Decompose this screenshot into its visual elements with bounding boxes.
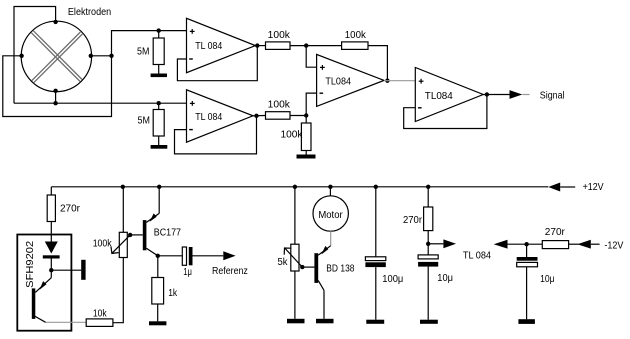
resistor R1 5M xyxy=(158,31,160,38)
svg-text:270r: 270r xyxy=(60,203,81,214)
resistor R7 270r xyxy=(50,187,52,195)
svg-text:+12V: +12V xyxy=(583,182,604,193)
wire top electrode loop to bottom bus xyxy=(14,7,56,104)
op-amp U2 TL084 xyxy=(187,90,254,142)
junction node B xyxy=(304,113,308,117)
svg-text:270r: 270r xyxy=(403,215,423,226)
svg-text:-12V: -12V xyxy=(604,240,623,251)
resistor R10 270r xyxy=(427,187,429,207)
electrode cross diagonal 2 xyxy=(32,32,83,83)
junction rail RV1 xyxy=(121,185,125,189)
svg-text:TL 084: TL 084 xyxy=(195,112,222,123)
node left electrode xyxy=(19,54,23,58)
svg-text:TL 084: TL 084 xyxy=(463,250,491,261)
svg-text:100k: 100k xyxy=(345,30,367,41)
transistor Q2 BC177 xyxy=(158,187,160,214)
+12V supply rail xyxy=(51,186,548,188)
capacitor C2 100u xyxy=(375,187,377,257)
arrow -12V xyxy=(577,240,591,249)
junction node A xyxy=(304,43,308,47)
junction rail Q2 emitter xyxy=(157,185,161,189)
potentiometer RV2 5k xyxy=(294,187,296,244)
svg-text:1μ: 1μ xyxy=(183,267,192,278)
svg-text:10μ: 10μ xyxy=(540,274,555,285)
arrow TL084 V- xyxy=(494,240,508,249)
wire R8 to potentiometer RV1 bottom xyxy=(113,258,123,323)
arrow +12V xyxy=(548,183,560,192)
svg-text:100k: 100k xyxy=(268,100,291,111)
wire left electrode loop to op-amp U1 input xyxy=(3,31,187,117)
op-amp U1 TL084 xyxy=(187,18,256,72)
op-amp U3 TL084 xyxy=(317,54,384,106)
wire right electrode to vertical xyxy=(91,55,112,57)
svg-text:100k: 100k xyxy=(268,30,291,41)
arrow Referenz output xyxy=(223,251,235,260)
node right electrode xyxy=(89,54,93,58)
junction LED cathode / phototransistor xyxy=(49,268,53,272)
op-amp U2 output wire xyxy=(253,115,266,117)
svg-text:SFH9202: SFH9202 xyxy=(25,240,36,287)
junction bottom electrode bus xyxy=(53,101,57,105)
junction U1 output xyxy=(255,43,259,47)
ground under R1 xyxy=(151,74,167,78)
svg-text:BC177: BC177 xyxy=(154,228,182,239)
resistor R6 100k feedback xyxy=(306,45,341,47)
svg-text:5M: 5M xyxy=(138,116,150,127)
wire arrow to junction C4 xyxy=(508,243,543,245)
ground under R9 xyxy=(149,321,166,325)
resistor R3 100k xyxy=(266,42,291,50)
svg-text:270r: 270r xyxy=(545,227,566,238)
ground (rotated) right of box xyxy=(81,260,85,280)
svg-text:Signal: Signal xyxy=(540,90,565,101)
resistor R8 10k xyxy=(86,319,113,327)
resistor R4 100k xyxy=(266,112,291,120)
transistor Q3 BD138 xyxy=(314,253,318,283)
resistor R9 1k xyxy=(157,256,159,278)
wire node A to U3 + input xyxy=(306,46,316,68)
ground under C4 xyxy=(518,319,535,324)
op-amp U4 feedback wire xyxy=(404,95,487,129)
svg-text:100k: 100k xyxy=(93,239,113,250)
motor M1 xyxy=(329,187,331,196)
wire bottom electrode to bus xyxy=(55,91,57,103)
wire RV1 wiper to Q2 base xyxy=(130,234,143,236)
ground under R2 xyxy=(151,145,168,149)
ground under RV2 xyxy=(287,319,305,324)
optocoupler box SFH9202 xyxy=(17,235,71,331)
svg-text:100μ: 100μ xyxy=(382,274,403,285)
svg-text:BD 138: BD 138 xyxy=(326,263,355,274)
capacitor C1 1u xyxy=(158,255,183,257)
arrow Signal output xyxy=(510,90,523,99)
svg-text:5k: 5k xyxy=(278,257,289,268)
svg-text:Referenz: Referenz xyxy=(212,266,248,277)
op-amp U4 output wire xyxy=(483,94,509,96)
ground under C2 xyxy=(366,320,384,324)
ground under C3 xyxy=(420,320,438,324)
wire motor to Q3 emitter (gray) xyxy=(330,231,332,246)
svg-text:10k: 10k xyxy=(93,309,108,320)
resistor R2 5M xyxy=(158,103,160,109)
junction U3 output xyxy=(385,79,389,83)
junction resistor R1 top xyxy=(157,28,161,32)
wire node B to U3 - input xyxy=(306,93,316,115)
svg-text:TL 084: TL 084 xyxy=(195,41,222,52)
svg-text:5M: 5M xyxy=(137,47,149,58)
svg-text:10μ: 10μ xyxy=(437,273,453,284)
wire junction to ground bar xyxy=(51,269,81,271)
wire Q1 emitter to R8 (gray) xyxy=(46,321,87,323)
phototransistor Q1 xyxy=(50,270,52,278)
node top electrode xyxy=(53,20,57,24)
wire U3 output to U4 + input xyxy=(384,80,415,82)
junction right electrode xyxy=(109,54,113,58)
electrode array circle xyxy=(21,21,91,91)
node bottom electrode xyxy=(53,89,57,93)
LED D1 xyxy=(45,242,58,254)
potentiometer RV1 100k xyxy=(122,187,124,233)
svg-text:1k: 1k xyxy=(168,288,178,299)
svg-text:100k: 100k xyxy=(281,129,304,140)
arrow TL084 V+ xyxy=(443,239,456,248)
op-amp U1 feedback wire xyxy=(177,46,257,81)
junction rail RV2 xyxy=(293,185,297,189)
junction R10 C3 xyxy=(426,242,430,246)
junction rail motor xyxy=(328,185,332,189)
wire bottom bus to op-amp U2 input xyxy=(14,102,187,104)
junction C4 R11 xyxy=(524,242,528,246)
junction U2 output xyxy=(254,114,258,118)
op-amp U2 feedback wire xyxy=(175,116,257,154)
wire RV2 wiper to Q3 base xyxy=(302,266,314,268)
resistor R5 100k to ground xyxy=(305,116,307,124)
junction Q2 collector xyxy=(156,254,160,258)
capacitor C4 10u xyxy=(526,244,528,257)
junction U4 output xyxy=(485,92,489,96)
svg-text:TL084: TL084 xyxy=(425,91,453,102)
capacitor C3 10u xyxy=(427,244,429,255)
electrode cross diagonal 1 xyxy=(31,31,82,82)
junction resistor R2 bottom xyxy=(157,101,161,105)
op-amp U1 output wire xyxy=(255,45,265,47)
wire junction to arrow TL084 V+ xyxy=(428,243,443,245)
svg-text:Motor: Motor xyxy=(318,210,343,221)
ground under Q3 xyxy=(316,319,334,324)
resistor R11 270r xyxy=(542,241,568,249)
ground under R5 xyxy=(297,155,316,159)
wire R6 to U3 output xyxy=(368,46,387,81)
op-amp U4 TL084 xyxy=(415,68,483,122)
junction RV2 wiper xyxy=(300,265,304,269)
junction rail R10 xyxy=(426,185,430,189)
svg-text:Elektroden: Elektroden xyxy=(68,7,111,18)
junction RV1 wiper xyxy=(128,233,132,237)
svg-text:TL084: TL084 xyxy=(325,76,351,87)
junction rail C2 xyxy=(374,185,378,189)
